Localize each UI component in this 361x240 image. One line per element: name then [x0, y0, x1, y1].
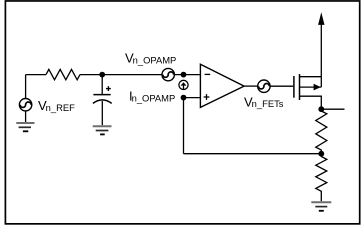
node C (non-inverting input branch): [181, 95, 187, 101]
body stub: [300, 86, 322, 88]
op-amp U1: [200, 64, 244, 107]
stub wire right from node D: [321, 108, 344, 110]
node E (divider junction): [318, 151, 324, 157]
resistor R1 (vertical top): [316, 111, 327, 154]
svg-text:Vn_REF: Vn_REF: [38, 98, 75, 113]
channel bar: [299, 74, 301, 100]
op-amp plus sign: [204, 94, 210, 100]
wire op-amp output: [244, 85, 258, 87]
wire V_n_OPAMP to node B: [174, 74, 200, 76]
node B (inverting input branch): [181, 72, 187, 78]
wire node A to V_n_OPAMP source: [102, 74, 162, 76]
wire node C down (feedback): [183, 98, 185, 154]
wire to FET gate: [270, 85, 293, 87]
wire resistor to node A: [80, 74, 102, 76]
ground (under V_n_REF): [16, 123, 34, 131]
drain wire up: [320, 24, 322, 77]
capacitor (polarized): [93, 95, 112, 104]
ground (under capacitor): [93, 126, 112, 134]
gate bar: [293, 76, 295, 98]
wire source to resistor: [26, 74, 46, 76]
wire Vnref bottom: [25, 111, 27, 122]
voltage source V_n_FETs: [258, 80, 270, 92]
body arrow: [314, 84, 321, 91]
node D (FET source node): [318, 106, 324, 112]
wire feedback horizontal: [184, 153, 322, 155]
wire node A to capacitor: [101, 75, 103, 94]
wire node C to op-amp plus input: [184, 97, 201, 99]
ground (under R2): [311, 202, 331, 211]
svg-text:In_OPAMP: In_OPAMP: [129, 89, 175, 104]
op-amp minus sign: [205, 73, 211, 75]
resistor R2 (vertical bottom): [316, 154, 327, 202]
voltage source V_n_OPAMP: [162, 68, 174, 80]
drain stub: [300, 76, 322, 78]
svg-text:Vn_OPAMP: Vn_OPAMP: [125, 50, 176, 65]
wire capacitor to ground: [101, 101, 103, 125]
resistor (horizontal): [46, 69, 80, 79]
transistor Q1 (MOSFET): [294, 74, 300, 100]
wire Vnref top: [25, 75, 27, 99]
drain vertical to body: [320, 77, 322, 87]
voltage source V_n_REF: [19, 99, 31, 111]
current source I_n_OPAMP: [179, 80, 188, 89]
wire node D to R1: [320, 109, 322, 111]
svg-text:Vn_FETs: Vn_FETs: [244, 94, 284, 109]
node A (junction at capacitor): [99, 72, 105, 78]
arrow up (drain): [318, 12, 324, 25]
plus sign of capacitor: [106, 86, 111, 91]
source stub: [300, 96, 322, 109]
